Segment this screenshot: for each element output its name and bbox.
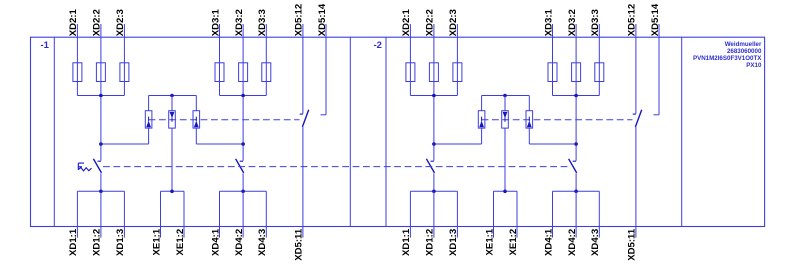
wire terminal XD1:3 bottom stub (-1) xyxy=(123,191,125,237)
wire XE1 junction bar (-1) xyxy=(161,190,185,192)
svg-text:Weidmueller: Weidmueller xyxy=(725,41,762,48)
svg-text:XD5:14: XD5:14 xyxy=(650,3,661,36)
wire arrester shaft x=172 (-2) xyxy=(504,96,506,111)
wire terminal XD1:2 bottom stub (-2) xyxy=(433,191,435,237)
svg-text:XE1:1: XE1:1 xyxy=(151,228,162,255)
frame divider right module label column xyxy=(385,37,387,226)
svg-text:XD5:11: XD5:11 xyxy=(294,228,305,261)
wire XD3 junction bar (-2) xyxy=(553,95,600,97)
wire terminal XD4:2 bottom stub (-1) xyxy=(242,191,244,237)
wire XD4 junction bar (-2) xyxy=(553,190,600,192)
wire arrester1 bottom drop (-2) xyxy=(481,128,483,144)
node XD3 junction (-1) xyxy=(241,94,245,98)
wire terminal XD2:2 top stub (-1) xyxy=(100,24,102,37)
wire arrester1 branch to left main (-2) xyxy=(434,143,482,145)
arrester U1 body (-1) xyxy=(145,111,152,128)
fuse F-XD2:3 (-2) xyxy=(453,63,462,82)
wire XD3:2 lead (-2) xyxy=(575,37,577,161)
svg-text:XD3:1: XD3:1 xyxy=(210,8,221,36)
arrester down-arrow (-1) xyxy=(171,117,173,121)
svg-text:XE1:2: XE1:2 xyxy=(175,229,186,256)
wire arrester common bar (-1) xyxy=(149,95,197,97)
fuse F-XD2:1 (-1) xyxy=(73,63,82,82)
wire terminal XD5:12 top stub (-2) xyxy=(635,24,637,37)
wire terminal XE1:2 bottom stub (-2) xyxy=(516,191,518,237)
wire XD3:1 lead (-2) xyxy=(552,37,554,95)
wire XD5:11 drop (-1) xyxy=(302,127,304,238)
wire arrester shaft x=196.3 (-1) xyxy=(195,96,197,111)
wire arrester shaft x=148.6 (-2) xyxy=(481,96,483,111)
node arrester1 join (-2) xyxy=(432,142,436,146)
switch S1 blade (-2) xyxy=(635,110,641,127)
wire XD3:3 lead (-1) xyxy=(265,37,267,95)
fuse F-XD2:3 (-1) xyxy=(120,63,129,82)
switch S3 blade (-1) xyxy=(236,159,244,173)
arrester U1 body (-2) xyxy=(478,111,485,128)
wire terminal XD5:12 top stub (-1) xyxy=(302,24,304,37)
svg-text:-1: -1 xyxy=(41,40,50,51)
arrester up-arrow x=148.6 (-1) xyxy=(148,117,150,122)
wire terminal XD3:1 top stub (-2) xyxy=(552,24,554,37)
svg-text:XD1:1: XD1:1 xyxy=(68,228,79,256)
svg-text:XE1:2: XE1:2 xyxy=(508,229,519,256)
wire terminal XD5:14 top stub (-1) xyxy=(325,24,327,37)
frame module separator xyxy=(349,37,351,226)
wire arrester3 branch to right main (-2) xyxy=(529,143,576,145)
svg-text:XD3:3: XD3:3 xyxy=(257,9,268,36)
node arrester bar junction (-2) xyxy=(503,94,507,98)
node XD2 junction (-1) xyxy=(99,94,103,98)
svg-text:XD4:1: XD4:1 xyxy=(543,228,554,256)
arrester U3 body (-1) xyxy=(193,111,200,128)
switch S1 blade (-1) xyxy=(302,110,308,127)
wire arrester3 bottom drop (-1) xyxy=(195,128,197,144)
wire terminal XD3:1 top stub (-1) xyxy=(219,24,221,37)
wire terminal XD4:1 bottom stub (-1) xyxy=(219,191,221,237)
svg-text:XD2:2: XD2:2 xyxy=(92,9,103,36)
node XE1 junction (-2) xyxy=(503,190,507,194)
svg-text:2683060000: 2683060000 xyxy=(727,48,762,55)
svg-text:XD3:1: XD3:1 xyxy=(543,8,554,36)
wire terminal XD2:1 top stub (-2) xyxy=(409,24,411,37)
wire XD5:14 contact foot (-2) xyxy=(654,114,660,116)
node XD1 junction (-1) xyxy=(99,190,103,194)
node XD1 junction (-2) xyxy=(432,190,436,194)
node XD2 junction (-2) xyxy=(432,94,436,98)
wire XE1 junction bar (-2) xyxy=(494,190,518,192)
wire XD5:11 drop (-2) xyxy=(635,127,637,238)
wire S2 lower stub (-2) xyxy=(433,173,435,191)
dashed linkage upper (-1) xyxy=(149,119,300,121)
wire XD3:1 lead (-1) xyxy=(219,37,221,95)
wire terminal XE1:1 bottom stub (-2) xyxy=(493,191,495,237)
fuse F-XD2:1 (-2) xyxy=(406,63,415,82)
fuse F-XD3:2 (-1) xyxy=(239,63,248,82)
arrester U2 body (-2) xyxy=(502,111,509,128)
wire terminal XD4:1 bottom stub (-2) xyxy=(552,191,554,237)
svg-text:XD2:3: XD2:3 xyxy=(448,9,459,36)
wire terminal XD3:2 top stub (-1) xyxy=(242,24,244,37)
wire terminal XD2:3 top stub (-2) xyxy=(456,24,458,37)
wire XD2:1 lead (-1) xyxy=(76,37,78,95)
wire terminal XD3:3 top stub (-2) xyxy=(598,24,600,37)
wire XD5:12 drop to switch (-1) xyxy=(302,37,304,114)
svg-text:PX10: PX10 xyxy=(746,62,762,69)
wire terminal XD1:2 bottom stub (-1) xyxy=(100,191,102,237)
wire arrester2 earth drop (-2) xyxy=(504,128,506,191)
arrester up-arrow x=196.3 (-1) xyxy=(195,117,197,122)
node XD4 junction (-2) xyxy=(574,190,578,194)
wire arrester shaft x=148.6 (-1) xyxy=(148,96,150,111)
frame outer box xyxy=(31,37,765,226)
svg-text:XD5:12: XD5:12 xyxy=(294,4,305,37)
wire terminal XD4:3 bottom stub (-2) xyxy=(598,191,600,237)
svg-text:XD3:3: XD3:3 xyxy=(590,9,601,36)
svg-text:XD3:2: XD3:2 xyxy=(567,9,578,36)
node arrester bar junction (-1) xyxy=(170,94,174,98)
wire XD2:1 lead (-2) xyxy=(409,37,411,95)
svg-text:XD1:2: XD1:2 xyxy=(425,229,436,256)
fuse F-XD3:2 (-2) xyxy=(572,63,581,82)
wire terminal XD4:2 bottom stub (-2) xyxy=(575,191,577,237)
switch S1 contact tick (-2) xyxy=(633,113,636,115)
svg-text:XD5:11: XD5:11 xyxy=(627,228,638,261)
svg-text:XD4:3: XD4:3 xyxy=(257,229,268,256)
svg-text:XD2:1: XD2:1 xyxy=(401,8,412,36)
wire XD2:2 lead (-2) xyxy=(433,37,435,161)
node arrester1 join (-1) xyxy=(99,142,103,146)
wire XD2 junction bar (-1) xyxy=(77,95,124,97)
wire terminal XD1:1 bottom stub (-1) xyxy=(76,191,78,237)
fuse F-XD3:3 (-1) xyxy=(262,63,271,82)
wire terminal XE1:2 bottom stub (-1) xyxy=(183,191,185,237)
switch S3 blade (-2) xyxy=(569,159,577,173)
svg-text:PVN1M2I6S0F3V1O0TX: PVN1M2I6S0F3V1O0TX xyxy=(693,55,762,62)
svg-text:XD1:1: XD1:1 xyxy=(401,228,412,256)
wire XD5:14 contact foot (-1) xyxy=(321,114,327,116)
wire arrester2 earth drop (-1) xyxy=(171,128,173,191)
svg-text:XD4:3: XD4:3 xyxy=(590,229,601,256)
wire terminal XD2:2 top stub (-2) xyxy=(433,24,435,37)
svg-text:XD4:2: XD4:2 xyxy=(234,229,245,256)
svg-text:XD4:2: XD4:2 xyxy=(567,229,578,256)
wire arrester1 bottom drop (-1) xyxy=(148,128,150,144)
wire XD5:12 drop to switch (-2) xyxy=(635,37,637,114)
wire arrester common bar (-2) xyxy=(482,95,530,97)
wire XD3:2 lead (-1) xyxy=(242,37,244,161)
fuse F-XD3:1 (-2) xyxy=(548,63,557,82)
wire XD2:3 lead (-1) xyxy=(123,37,125,95)
frame divider left module label column xyxy=(53,37,55,226)
dashed linkage lower (common) xyxy=(103,166,568,168)
svg-text:XD3:2: XD3:2 xyxy=(234,9,245,36)
dashed linkage upper (-2) xyxy=(482,119,633,121)
wire XD1 junction bar (-1) xyxy=(77,190,124,192)
wire arrester3 bottom drop (-2) xyxy=(528,128,530,144)
node XD3 junction (-2) xyxy=(574,94,578,98)
wire XD5:14 drop (-2) xyxy=(658,37,660,115)
wire terminal XD3:3 top stub (-1) xyxy=(265,24,267,37)
wire arrester3 branch to right main (-1) xyxy=(196,143,243,145)
switch S2 blade (-2) xyxy=(426,159,434,173)
fuse F-XD3:3 (-2) xyxy=(595,63,604,82)
wire S2 lower stub (-1) xyxy=(100,173,102,191)
switch S3 contact tick (-1) xyxy=(240,160,243,162)
arrester U3 body (-2) xyxy=(526,111,533,128)
svg-text:XD2:1: XD2:1 xyxy=(68,8,79,36)
wire arrester shaft x=172 (-1) xyxy=(171,96,173,111)
wire XD2:3 lead (-2) xyxy=(456,37,458,95)
svg-text:XD4:1: XD4:1 xyxy=(210,228,221,256)
wire XD3:3 lead (-2) xyxy=(598,37,600,95)
node XD4 junction (-1) xyxy=(241,190,245,194)
wire terminal XD4:3 bottom stub (-1) xyxy=(265,191,267,237)
arrester up-arrow x=196.3 (-2) xyxy=(528,117,530,122)
wire XD2:2 lead (-1) xyxy=(100,37,102,161)
arrester down-arrow (-2) xyxy=(504,117,506,121)
arrester U2 body (-1) xyxy=(169,111,176,128)
fuse F-XD3:1 (-1) xyxy=(215,63,224,82)
fuse F-XD2:2 (-2) xyxy=(429,63,438,82)
wire XD5:14 drop (-1) xyxy=(325,37,327,115)
wire S3 lower stub (-2) xyxy=(575,173,577,191)
svg-text:XD5:12: XD5:12 xyxy=(627,4,638,37)
svg-text:XD2:2: XD2:2 xyxy=(425,9,436,36)
wire terminal XD2:1 top stub (-1) xyxy=(76,24,78,37)
switch S2 blade (-1) xyxy=(93,159,101,173)
switch S1 contact tick (-1) xyxy=(300,113,303,115)
wire terminal XD5:14 top stub (-2) xyxy=(658,24,660,37)
wire XD1 junction bar (-2) xyxy=(410,190,457,192)
svg-text:XD1:3: XD1:3 xyxy=(448,229,459,256)
wire arrester shaft x=196.3 (-2) xyxy=(528,96,530,111)
fuse F-XD2:2 (-1) xyxy=(96,63,105,82)
wire terminal XD1:1 bottom stub (-2) xyxy=(409,191,411,237)
svg-text:XE1:1: XE1:1 xyxy=(484,228,495,255)
wire XD4 junction bar (-1) xyxy=(220,190,267,192)
wire XD3 junction bar (-1) xyxy=(220,95,267,97)
wire terminal XD3:2 top stub (-2) xyxy=(575,24,577,37)
wire terminal XD2:3 top stub (-1) xyxy=(123,24,125,37)
wire terminal XD1:3 bottom stub (-2) xyxy=(456,191,458,237)
svg-text:XD5:14: XD5:14 xyxy=(317,3,328,36)
node XE1 junction (-1) xyxy=(170,190,174,194)
svg-text:XD2:3: XD2:3 xyxy=(115,9,126,36)
node arrester3 join (-1) xyxy=(241,142,245,146)
wire S3 lower stub (-1) xyxy=(242,173,244,191)
wire arrester1 branch to left main (-1) xyxy=(101,143,149,145)
node arrester3 join (-2) xyxy=(574,142,578,146)
wire XD2 junction bar (-2) xyxy=(410,95,457,97)
frame info panel separator xyxy=(681,37,683,226)
switch S2 contact tick (-1) xyxy=(98,160,101,162)
svg-text:-2: -2 xyxy=(374,40,382,51)
svg-text:XD1:3: XD1:3 xyxy=(115,229,126,256)
svg-text:XD1:2: XD1:2 xyxy=(92,229,103,256)
manual actuator of switch S2 xyxy=(78,163,91,171)
wire terminal XE1:1 bottom stub (-1) xyxy=(160,191,162,237)
arrester up-arrow x=148.6 (-2) xyxy=(481,117,483,122)
switch S3 contact tick (-2) xyxy=(573,160,576,162)
switch S2 contact tick (-2) xyxy=(431,160,434,162)
